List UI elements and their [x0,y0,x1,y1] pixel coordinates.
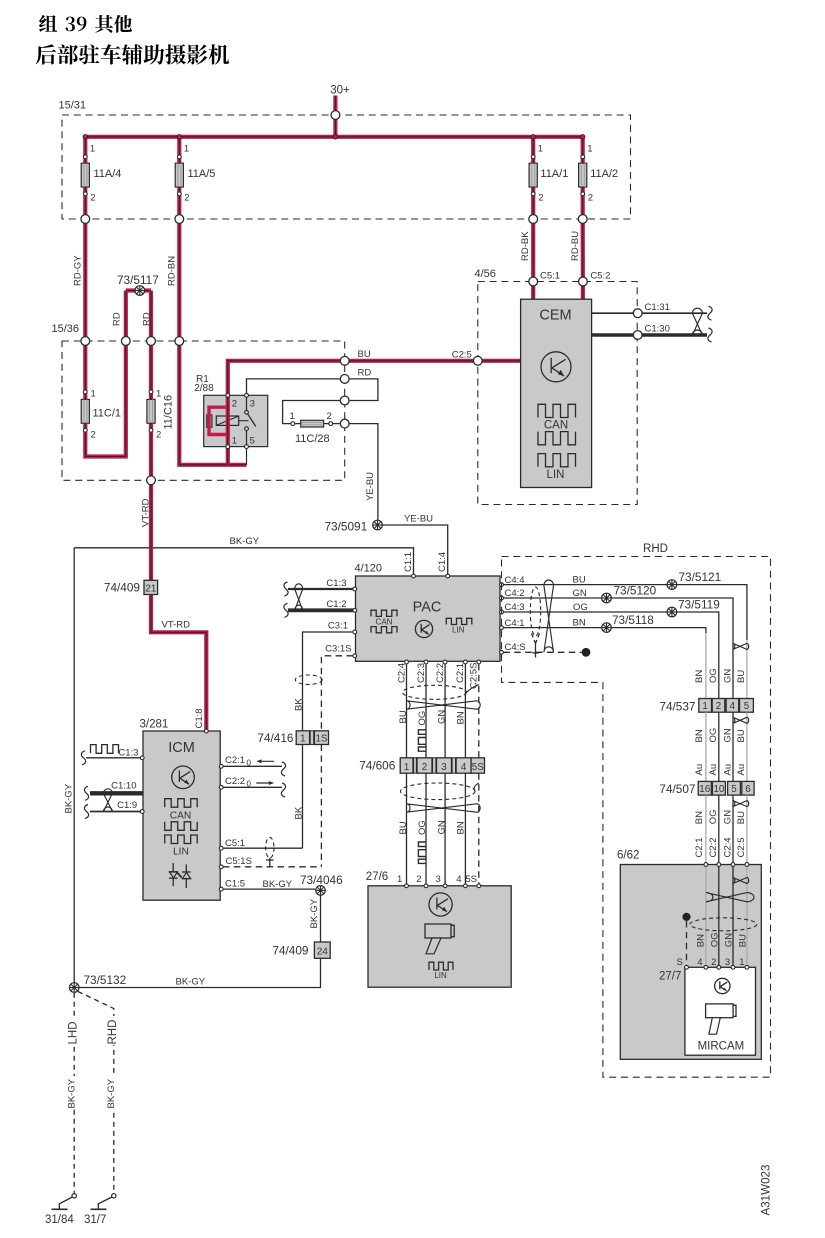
svg-text:GN: GN [722,728,733,742]
wire feed to fuse 11A/2 [581,137,585,219]
module box label 3/281 [140,719,169,731]
control module box 4/56 (dashed boundary) [475,268,638,505]
svg-text:OG: OG [417,820,428,835]
svg-text:C1:10: C1:10 [111,781,136,792]
wire RD-BN to relay pin 5 [179,341,246,465]
junction 30+/bus [333,135,337,139]
wire relay pin1 drop [226,447,230,465]
svg-text:3/281: 3/281 [140,719,169,731]
svg-text:1: 1 [232,436,237,447]
wire BN C2:1 to 74/606-4 [464,664,466,758]
wire C4:S shield drain [503,651,581,653]
svg-text:RD-BU: RD-BU [570,231,581,261]
wire BK-GY (left trunk horizontal) [74,536,413,576]
node 15/36 entry RD right [147,337,156,346]
svg-text:2: 2 [90,193,95,204]
transient suppressor symbols ICM [169,863,191,888]
wire labels above 27/6 [398,820,466,835]
svg-text:ICM: ICM [168,740,195,756]
node YE-BU on 15/36 edge [340,419,349,428]
shield ellipse below PAC [403,685,479,700]
pin plating labels Au [694,764,747,776]
svg-text:C2:2: C2:2 [708,837,719,857]
fuse 11A/1 [529,144,568,204]
svg-text:C2:4: C2:4 [396,663,407,683]
wire BK (PAC C3:1 to 74/416-1) [294,632,354,731]
svg-text:2: 2 [422,762,427,773]
pin C3:1 PAC [328,621,357,634]
splice 73/5118 [602,613,655,632]
title line 1: 组 39 其他 [39,15,132,33]
wire shield drain to pin S [686,921,688,967]
svg-text:2: 2 [716,701,721,712]
svg-text:C1:3: C1:3 [326,578,346,589]
wire BK-GY (74/409-24 down) [80,958,321,987]
splice 73/5117 [117,273,159,295]
svg-text:5: 5 [744,701,750,712]
pin C1:4 [437,552,449,578]
svg-text:2: 2 [538,193,543,204]
twisted quad below PAC [407,701,481,709]
pin C1:8 ICM [204,729,208,733]
wire BN inside 6/62 [705,866,707,967]
svg-text:30+: 30+ [330,84,350,96]
svg-text:GN: GN [436,710,447,724]
pin C2:2 PAC [435,660,447,683]
wire BN 74/507 to 6/62 [705,795,707,864]
shield drain dot 6/62 [682,913,690,921]
wire splice legs RD [112,291,153,342]
node C1:31 [633,302,670,318]
wire OG 74/606 to 27/6 [425,773,427,886]
junction bus/11A/5 [177,135,181,139]
svg-text:C1:5: C1:5 [225,879,245,890]
svg-text:C2:2: C2:2 [435,663,446,683]
wire BU (relay pin2 to CEM C2:5) [226,349,521,397]
wire OG 74/537 to 74/507 [718,712,720,781]
svg-text:27/6: 27/6 [366,871,388,883]
svg-text:C2:1: C2:1 [694,837,705,857]
pin C4:1 PAC [500,618,525,630]
splice 73/5119 [667,598,720,617]
pin C1:1 [403,552,415,578]
svg-text:73/5118: 73/5118 [612,613,654,627]
splice 73/5132 [69,973,126,992]
wire YE-BU (to splice 73/5091) [345,424,378,520]
svg-text:74/507: 74/507 [659,782,695,796]
svg-text:10: 10 [713,784,724,795]
svg-text:2: 2 [91,430,96,441]
svg-text:2: 2 [232,399,237,410]
op-amp U CEM (central electronic module) [521,299,592,487]
wire RD (relay pin3 loop) [245,368,378,401]
svg-text:4/120: 4/120 [355,563,383,575]
wire BN 74/537 to 74/507 [705,712,707,781]
svg-text:27/7: 27/7 [659,971,681,983]
fuse 11C/28 [290,411,333,445]
svg-text:4: 4 [461,762,467,773]
svg-text:BN: BN [455,821,466,834]
svg-text:C1:31: C1:31 [645,302,670,313]
svg-text:3: 3 [441,762,447,773]
svg-text:1: 1 [397,874,402,885]
pin C1:10 ICM [90,781,143,794]
svg-text:C2:5: C2:5 [736,837,747,857]
svg-text:GN: GN [722,669,733,683]
svg-text:VT-RD: VT-RD [140,498,151,527]
wire BK (74/416-1 to ICM C5:1) [294,745,305,849]
shield ellipse below 74/606 [401,783,479,800]
node 15/36 exit VT-RD [147,476,156,485]
svg-text:15/31: 15/31 [59,100,87,112]
svg-text:C5:1: C5:1 [540,271,560,282]
wire C1:31 [592,312,707,314]
wire RD-BU (11A/2 to CEM C5:2) [570,219,583,299]
svg-text:C2:2: C2:2 [225,776,245,787]
wire 5S 74/606 to 27/6 [478,773,480,886]
svg-text:BU: BU [736,729,747,742]
svg-text:4: 4 [456,874,461,885]
wire labels below 74/537 [694,728,747,743]
svg-text:1: 1 [90,144,95,155]
svg-text:RD-BN: RD-BN [167,256,178,286]
wire GN inside 6/62 [732,866,734,967]
module box label 4/120 [355,563,383,575]
wire feed to fuse 11A/5 [177,137,181,219]
wire RD-GY (11A/4 to 15/36) [73,219,86,341]
svg-text:74/409: 74/409 [104,581,140,595]
svg-text:C3:1: C3:1 [328,621,348,632]
pin C2:4 PAC [396,660,408,683]
svg-text:OG: OG [417,711,428,726]
svg-text:GN: GN [724,933,735,947]
svg-text:73/5119: 73/5119 [678,598,720,612]
svg-text:4: 4 [697,957,702,968]
shield ellipse below PAC C3:1 [295,675,322,684]
junction bus/11A/4 [83,135,87,139]
svg-text:73/5117: 73/5117 [117,273,159,287]
wire GN 74/537 to 74/507 [732,712,734,781]
svg-text:0: 0 [247,779,252,788]
svg-text:Au: Au [736,764,747,776]
fuse/relay box 15/36 (dashed boundary) [52,323,345,480]
twisted quad below 74/606 [407,804,481,812]
svg-text:C1:2: C1:2 [326,599,346,610]
svg-text:2/88: 2/88 [194,383,214,394]
svg-text:C1:1: C1:1 [403,552,414,572]
pin C4:4 PAC [500,575,525,587]
svg-text:11A/2: 11A/2 [590,168,618,180]
pin C2:5S PAC [469,660,481,689]
svg-text:15/36: 15/36 [52,323,80,335]
node 30+ entry circle [331,111,340,120]
svg-text:C1:4: C1:4 [437,552,448,572]
svg-text:LIN: LIN [547,469,565,481]
connector 74/606 [359,758,484,773]
op-amp U ICM (infotainment control module) [143,731,220,900]
pin C4:2 PAC [500,588,525,600]
fuse 11A/4 [81,144,121,204]
wire 11C/16 branch [149,341,153,480]
svg-text:0: 0 [247,758,252,767]
pin C4:3 PAC [500,602,525,614]
wire 11C/28 feed [283,401,345,424]
svg-text:1: 1 [739,957,744,968]
shield ellipse inside 6/62 [690,918,757,931]
splice 73/4046 [300,873,343,895]
splice 73/5120 [602,584,657,603]
camera unit box 6/62 [617,850,761,1060]
svg-text:5S: 5S [465,874,477,885]
node 15/36 entry RD left [121,337,130,346]
svg-text:2: 2 [327,411,332,422]
svg-text:11A/1: 11A/1 [540,168,568,180]
svg-text:BU: BU [358,349,371,360]
svg-text:GN: GN [722,810,733,824]
svg-text:C5:2: C5:2 [590,271,610,282]
pin C1:5 ICM [219,879,315,891]
twisted pair C1:3/C1:2 PAC [295,584,303,611]
wire BU C2:4 to 74/606-1 [406,664,408,758]
svg-text:C2:5: C2:5 [452,350,472,361]
svg-text:5: 5 [250,436,255,447]
node 11A/5 box exit [175,215,184,224]
camera 27/7 MIRCAM [659,965,756,1055]
wire VT-RD (15/36 to 74/409-21) [140,480,151,580]
svg-text:3: 3 [725,957,730,968]
svg-text:Au: Au [708,764,719,776]
svg-text:GN: GN [436,820,447,834]
wire BU (C4:4 to 74/537-5) [503,575,747,699]
svg-text:16: 16 [699,784,710,795]
wire BU 74/507 to 6/62 [746,795,748,864]
svg-text:CEM: CEM [539,308,571,324]
pin C1:3 ICM [81,745,144,765]
wire feed to fuse 11A/4 [83,137,87,219]
svg-text:24: 24 [317,947,329,958]
svg-text:3: 3 [250,399,255,410]
svg-text:RD-GY: RD-GY [73,255,84,286]
svg-text:C2:1: C2:1 [455,663,466,683]
cut-off hooks C1:31/C1:30 [708,306,712,342]
pin C5:1S ICM [219,856,321,869]
svg-text:1: 1 [156,389,161,400]
svg-text:BK-GY: BK-GY [309,898,320,928]
node pin circles into 6/62 [704,863,749,867]
camera 27/6 (rear view camera) [366,871,511,987]
svg-text:Au: Au [722,764,733,776]
svg-text:RD: RD [358,368,372,379]
wire shield C2:5S to 74/606-5S [478,664,480,758]
svg-text:C1:30: C1:30 [645,324,670,335]
svg-text:BK: BK [294,698,305,711]
svg-text:OG: OG [708,668,719,683]
svg-text:2: 2 [156,430,161,441]
svg-text:1: 1 [702,701,707,712]
wire labels below 74/507 [694,809,747,824]
svg-text:73/5132: 73/5132 [84,973,127,987]
svg-text:11A/4: 11A/4 [94,168,122,180]
pin C2:2 ICM [219,776,285,797]
fuse 11A/2 [579,144,619,204]
wire BK-GY (left trunk vertical) [64,548,75,983]
wire YE-BU (splice to PAC C1:4) [383,514,448,577]
pin labels 27/6 [397,874,477,885]
svg-text:74/537: 74/537 [659,700,695,714]
pin C3:1S PAC [325,644,357,658]
fuse box 15/31 (dashed boundary) [59,100,631,220]
svg-text:BU: BU [738,934,749,947]
shield drain dot C4:S [582,648,591,657]
svg-text:1: 1 [587,144,592,155]
svg-text:BN: BN [696,934,707,947]
svg-text:11/C16: 11/C16 [163,395,175,430]
wire BK-GY (73/4046 to 74/409-24) [309,896,321,942]
wire BU inside 6/62 [746,866,748,967]
svg-text:74/606: 74/606 [359,759,396,773]
signal wave on OG wire (lower) [418,842,426,863]
svg-text:73/4046: 73/4046 [300,873,343,887]
node 11A/4 box exit [81,215,90,224]
cut-off hooks C1:3/C1:2 PAC [284,582,288,617]
svg-text:31/84: 31/84 [45,1214,74,1226]
svg-text:OG: OG [573,602,588,613]
node 15/36 entry RD-GY [81,337,90,346]
svg-text:BN: BN [694,729,705,742]
pin labels 27/7 [677,957,745,968]
svg-text:C2:3: C2:3 [416,663,427,683]
svg-text:1: 1 [184,144,189,155]
signal wave on OG wire (upper) [418,730,426,751]
svg-text:C1:8: C1:8 [194,708,205,728]
svg-text:31/7: 31/7 [84,1214,106,1226]
connector 74/409 pin 21 [104,580,158,594]
svg-text:OG: OG [708,728,719,743]
svg-text:LIN: LIN [452,625,465,634]
svg-text:1: 1 [404,762,409,773]
svg-text:2: 2 [184,193,189,204]
svg-text:1: 1 [91,389,96,400]
svg-text:11A/5: 11A/5 [188,168,216,180]
twisted pair GN/BU above 74/537 [733,643,749,649]
wire LHD ground (dashed) [64,993,80,1194]
splice 73/5121 [667,570,721,589]
svg-text:CAN: CAN [544,420,568,432]
svg-text:C2:1: C2:1 [225,755,245,766]
svg-text:1: 1 [290,411,295,422]
svg-text:73/5121: 73/5121 [679,570,722,584]
wire GN 74/507 to 6/62 [732,795,734,864]
wire OG inside 6/62 [718,866,720,967]
wire OG C2:3 to 74/606-2 [425,664,427,758]
svg-text:C1:3: C1:3 [118,748,138,759]
ground 31/7 [84,1194,116,1226]
pin C2:1 PAC [455,660,467,683]
svg-text:C4:S: C4:S [505,642,526,653]
node 15/36 entry RD-BN [175,337,184,346]
op-amp U PAC (parking assist camera module) [356,576,501,661]
junction bus/11A/2 [581,135,585,139]
fuse 11A/5 [175,144,215,204]
svg-text:RD: RD [112,312,123,326]
node 11A/1 box exit [529,215,538,224]
variant box RHD (dashed boundary) [502,543,771,1077]
wire RD-BK (11A/1 to CEM C5:1) [520,219,533,299]
svg-text:LIN: LIN [173,847,189,858]
relay R1 2/88 [194,374,268,465]
svg-text:5: 5 [731,784,737,795]
twisted pair C1:31/C1:30 [692,308,702,335]
node 11A/2 box exit [578,215,587,224]
svg-text:1S: 1S [315,733,327,744]
svg-text:LHD: LHD [68,1021,80,1044]
svg-text:BK: BK [294,806,305,819]
svg-text:YE-BU: YE-BU [404,514,433,525]
wire OG 74/507 to 6/62 [718,795,720,864]
pin C1:3 PAC [288,578,357,591]
title line 2: 后部驻车辅助摄影机 [36,44,229,64]
svg-text:CAN: CAN [376,618,393,627]
svg-text:C5:1S: C5:1S [226,856,252,867]
svg-text:YE-BU: YE-BU [365,472,376,501]
shield ellipse C5:1 [266,837,274,866]
wire shield (74/416-1S to ICM C5:1S) [320,745,322,867]
svg-text:C3:1S: C3:1S [325,644,351,655]
wire VT-RD (74/409-21 to ICM C1:8) [151,595,206,732]
twisted pair C1:10/C1:9 [103,789,112,812]
svg-text:BU: BU [398,710,409,723]
svg-text:CAN: CAN [170,810,192,821]
svg-text:BN: BN [694,811,705,824]
pin C4:S PAC [500,642,526,654]
pin C5:1 ICM [219,838,302,850]
twisted pair GN/BU below 74/507 [733,801,749,807]
svg-text:Au: Au [694,764,705,776]
wire OG (C4:3 to 74/537-2) [503,602,718,699]
wire GN (C4:2 to 74/537-4) [503,588,733,699]
svg-text:4: 4 [730,701,736,712]
svg-text:MIRCAM: MIRCAM [698,1041,745,1053]
wire RHD ground (dashed) [78,992,119,1194]
svg-text:RHD: RHD [107,1020,119,1045]
svg-text:BN: BN [573,618,586,629]
drawing number A31W023 [760,1165,773,1216]
pin C2:1 ICM [219,755,285,776]
svg-text:1: 1 [538,144,543,155]
wire shield (PAC C3:1S to 74/416-1S) [321,656,353,731]
wire RD-BN (11A/5 to 15/36) [167,219,180,341]
node C5:1 [529,271,560,286]
wire 11C/1 branch [85,341,126,457]
connector 74/409 pin 24 [272,942,330,958]
svg-text:BK-GY: BK-GY [106,1078,117,1108]
wire 11C/28 pin2 to edge [333,423,345,425]
wire BN (C4:1 to 74/537-1) [503,618,706,699]
svg-text:2: 2 [588,193,593,204]
svg-text:OG: OG [708,809,719,824]
connector 74/537 [659,699,753,714]
wire labels inside 6/62 [696,932,749,947]
svg-text:LIN: LIN [434,971,447,980]
svg-text:74/409: 74/409 [272,944,308,958]
svg-text:BN: BN [456,711,467,724]
svg-text:11C/1: 11C/1 [93,408,122,420]
svg-text:OG: OG [710,932,721,947]
wire 30+ bus [85,135,582,139]
node C1:30 [633,324,670,340]
svg-text:21: 21 [145,583,157,594]
pin C1:2 PAC [288,599,357,612]
